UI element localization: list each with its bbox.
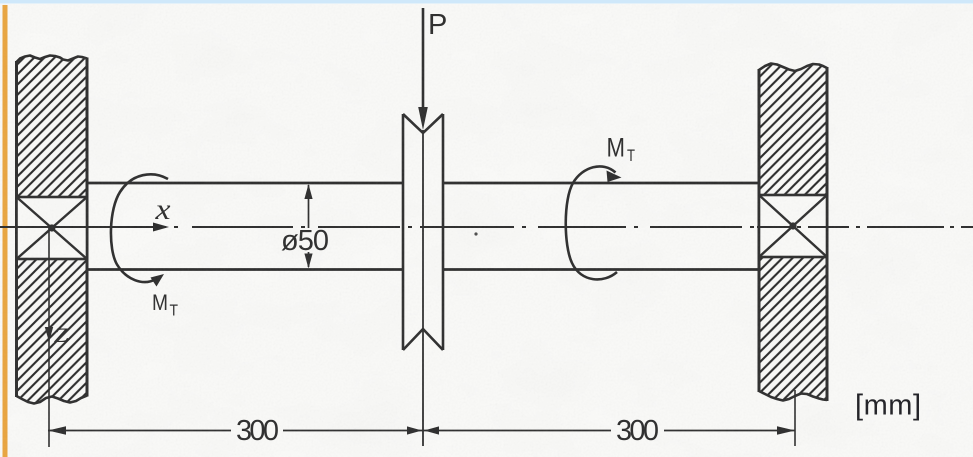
left support wall bbox=[17, 56, 88, 404]
left bearing box with X bbox=[17, 197, 88, 259]
right bearing box with X bbox=[759, 195, 827, 257]
scan speck bbox=[474, 232, 477, 235]
force P arrowhead bbox=[418, 107, 428, 130]
z axis arrowhead bbox=[45, 327, 53, 342]
right vertical extension line bbox=[794, 390, 796, 446]
left vertical extension line through bearing center bbox=[48, 228, 50, 447]
dimension ø50 line with arrows bbox=[308, 185, 310, 267]
pulley body bbox=[403, 114, 443, 350]
force P line bbox=[422, 8, 425, 112]
shaft top line bbox=[87, 182, 759, 185]
centerline over right bearing bbox=[757, 226, 973, 228]
bottom dimension line 300 + 300 bbox=[48, 430, 795, 432]
torque arc M_T right bbox=[566, 166, 617, 279]
yellow scanner strip left bbox=[3, 5, 8, 457]
dimension bowtie arrows at centre bbox=[407, 426, 422, 434]
shaft bottom line bbox=[87, 268, 759, 271]
blue scanner strip top bbox=[0, 0, 973, 4]
torque arc M_T left bbox=[111, 174, 168, 282]
dimension arrow left end bbox=[48, 426, 66, 435]
centerline (shaft axis, dash-dot) bbox=[0, 226, 754, 228]
centerline over left bearing bbox=[17, 226, 88, 228]
right support wall bbox=[759, 64, 827, 402]
pulley centre / dimension extension line bbox=[422, 130, 424, 446]
x axis arrowhead bbox=[153, 223, 169, 232]
dimension arrow right end bbox=[777, 426, 795, 435]
